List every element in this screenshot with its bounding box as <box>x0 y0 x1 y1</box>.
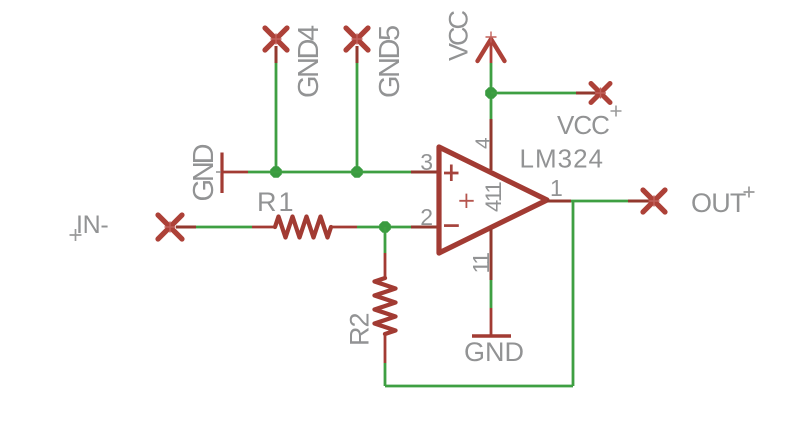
pin origin cross VCC arrow <box>486 32 497 43</box>
IN- pin stub <box>176 226 196 229</box>
op-amp plus input mark <box>444 165 459 182</box>
svg-text:GND: GND <box>188 144 220 201</box>
wire VCC to pin4 <box>490 63 493 119</box>
svg-text:VCC: VCC <box>557 110 609 140</box>
wire GND5 vertical <box>356 63 359 172</box>
svg-text:GND: GND <box>464 337 524 367</box>
supply symbol GND5 (X mark) <box>346 28 368 63</box>
junction dot at (491,93) <box>485 87 497 99</box>
pin origin cross GND4 <box>271 34 282 45</box>
op-amp U1 pin 2 stub <box>411 226 440 229</box>
pin origin cross VCC+ <box>595 88 606 99</box>
wire feedback vertical <box>572 201 575 386</box>
svg-text:LM324: LM324 <box>520 144 605 174</box>
svg-text:2: 2 <box>420 204 433 230</box>
junction dot at (276,172) <box>270 166 282 178</box>
ground symbol GND (bottom) <box>472 308 511 336</box>
net OUT X mark <box>643 190 665 212</box>
svg-text:411: 411 <box>481 182 506 212</box>
wire bottom feedback horizontal <box>385 385 573 388</box>
supply symbol VCC arrow <box>478 38 505 63</box>
svg-text:3: 3 <box>420 149 433 175</box>
net IN- : X mark <box>158 215 182 239</box>
junction dot at (357,172) <box>351 166 363 178</box>
wire R2 bottom <box>384 363 387 386</box>
svg-text:11: 11 <box>468 253 494 274</box>
svg-text:R1: R1 <box>257 187 296 217</box>
pin origin cross IN- <box>165 222 176 233</box>
svg-text:4: 4 <box>472 137 495 149</box>
svg-text:OUT: OUT <box>691 188 746 218</box>
op-amp pin 11 stub <box>490 229 493 280</box>
svg-text:1: 1 <box>550 175 563 201</box>
net VCC+ X mark <box>591 84 610 103</box>
op-amp U1 pin 3 stub <box>411 171 440 174</box>
pin origin cross OUT <box>649 196 660 207</box>
pin origin tick GND left <box>216 171 221 173</box>
wire IN- to R1 <box>196 226 252 229</box>
text origin cross OUT <box>744 187 755 198</box>
op-amp pin 1 stub <box>547 200 571 203</box>
text origin cross VCC+ <box>611 106 622 117</box>
wire VCC junction to VCC+ X <box>491 92 576 95</box>
junction dot at (385,227) <box>379 221 391 233</box>
wire pin3 row <box>248 171 411 174</box>
svg-text:GND5: GND5 <box>374 26 406 98</box>
op-amp minus input mark <box>444 224 459 227</box>
wire junction to R2 <box>384 227 387 253</box>
op-amp U1 triangle <box>439 147 547 253</box>
wire GND4 vertical <box>275 63 278 172</box>
VCC+ pin stub <box>576 92 601 95</box>
supply symbol GND4 (X mark) <box>265 28 287 63</box>
op-amp pin 4 stub <box>490 119 493 170</box>
svg-text:VCC: VCC <box>444 10 474 61</box>
resistor R1 <box>252 217 357 238</box>
svg-text:GND4: GND4 <box>293 25 325 98</box>
resistor R2 <box>375 253 396 363</box>
svg-text:R2: R2 <box>345 313 375 346</box>
wire pin1 to OUT <box>571 200 628 203</box>
text origin cross IN- <box>70 229 82 241</box>
OUT pin stub <box>628 200 654 203</box>
pin origin cross GND5 <box>352 34 363 45</box>
ground symbol GND (left, rotated) <box>222 153 248 194</box>
wire pin11 to GND <box>490 280 493 308</box>
wire R1 to pin2 <box>357 226 411 229</box>
op-amp gate origin cross <box>459 194 473 208</box>
